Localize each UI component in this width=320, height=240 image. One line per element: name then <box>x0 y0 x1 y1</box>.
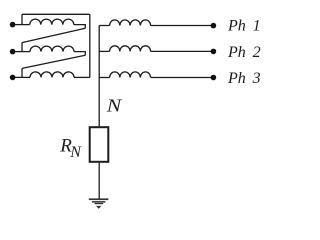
wire: bus to winding S1 <box>99 25 109 27</box>
resistor R_N (box) <box>90 127 109 162</box>
wire: right edge of delta loop <box>89 14 91 77</box>
svg-text:N: N <box>69 144 82 161</box>
wire: winding L3 end to delta right edge <box>74 76 90 78</box>
terminal dot Ph 3 <box>211 75 217 81</box>
wire: diagonal L2 end to node C <box>22 55 85 68</box>
wire: dot C to winding L3 <box>15 76 30 78</box>
svg-text:Ph 3: Ph 3 <box>227 70 261 87</box>
junction C riser <box>21 68 23 77</box>
wire: bus to winding S2 <box>99 50 109 52</box>
wire: bus to winding S3 <box>99 77 109 79</box>
wire: winding L1 end extension <box>74 25 86 29</box>
ground symbol <box>89 198 109 208</box>
terminal dot Ph 2 <box>211 49 217 55</box>
wire: winding S2 to terminal Ph 2 <box>151 50 211 52</box>
junction A riser to top rail <box>21 14 23 24</box>
wire: winding L2 end extension <box>74 52 85 56</box>
terminal dot, delta phase B <box>10 49 16 55</box>
wire: dot A to winding L1 <box>15 24 30 26</box>
wire: dot B to winding L2 <box>15 51 30 53</box>
terminal dot, delta phase C <box>10 75 16 81</box>
junction B riser <box>21 43 23 52</box>
winding S3 (wye secondary, phase 3) <box>110 72 151 78</box>
terminal dot Ph 1 <box>211 23 217 29</box>
wire: winding S1 to terminal Ph 1 <box>151 25 211 27</box>
wire: winding S3 to terminal Ph 3 <box>151 77 211 79</box>
terminal dot, delta phase A <box>10 22 16 28</box>
wire: top rail <box>22 13 90 15</box>
winding L3 (delta primary, phase C) <box>30 72 74 78</box>
svg-text:Ph 2: Ph 2 <box>227 44 261 61</box>
wire: resistor to ground <box>98 163 100 199</box>
wire: diagonal L1 end to node B <box>22 28 85 42</box>
winding S1 (wye secondary, phase 1) <box>110 20 151 26</box>
svg-text:N: N <box>106 96 123 116</box>
svg-text:Ph 1: Ph 1 <box>227 18 261 35</box>
wire: neutral bus N <box>98 26 100 127</box>
winding L2 (delta primary, phase B) <box>30 46 74 52</box>
winding S2 (wye secondary, phase 2) <box>110 46 151 52</box>
winding L1 (delta primary, phase A) <box>30 19 74 25</box>
